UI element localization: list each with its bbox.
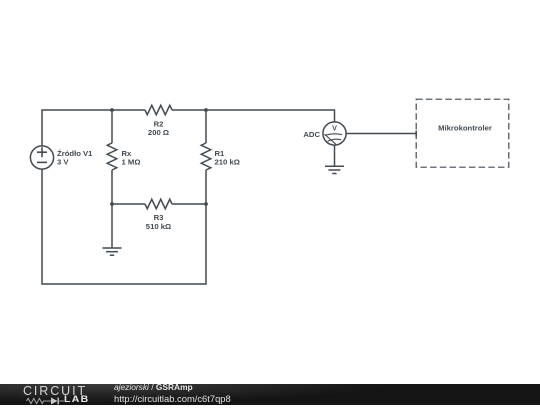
svg-text:Mikrokontroler: Mikrokontroler xyxy=(438,124,492,133)
svg-text:V: V xyxy=(332,124,337,133)
resistor Rx xyxy=(107,143,117,170)
wire V1 bottom to bottom rail xyxy=(42,170,206,285)
wire Rx top lead xyxy=(111,110,113,143)
svg-text:200 Ω: 200 Ω xyxy=(148,128,169,137)
logo resistor squiggle xyxy=(27,398,52,403)
terminal tick at Mikrokontroler xyxy=(415,131,417,137)
wire R1 bottom lead to R3 node xyxy=(205,170,207,204)
wire top rail Rx node to R2 left lead xyxy=(112,109,145,111)
junction node at R1 bottom / R3 right xyxy=(204,202,208,206)
wire R3 left lead xyxy=(112,203,145,205)
wire R1 top lead xyxy=(205,110,207,143)
resistor R1 xyxy=(201,143,211,170)
V1 plus sign xyxy=(37,147,47,157)
voltmeter ADC circle xyxy=(323,122,346,145)
voltmeter needle xyxy=(324,134,336,144)
wire ADC to Mikrokontroler xyxy=(347,133,417,135)
resistor R3 xyxy=(145,199,172,209)
svg-text:510 kΩ: 510 kΩ xyxy=(146,222,171,231)
wire Rx bottom lead to R3 node xyxy=(111,170,113,204)
wire R2 right lead to R1 node xyxy=(172,109,206,111)
resistor R2 xyxy=(145,105,172,115)
voltmeter scale arc lower xyxy=(328,139,342,141)
junction node at Rx top xyxy=(110,108,114,112)
svg-text:ADC: ADC xyxy=(303,130,320,139)
wire top rail left: V1 top to Rx node xyxy=(42,110,112,146)
wire ground stub below ADC xyxy=(334,146,336,167)
V1 minus sign xyxy=(37,161,47,163)
svg-text:3 V: 3 V xyxy=(57,157,69,166)
Mikrokontroler dashed box xyxy=(416,99,509,167)
junction node at Rx bottom / R3 left xyxy=(110,202,114,206)
footer bar xyxy=(0,384,540,405)
svg-text:R3: R3 xyxy=(154,213,164,222)
wire R3 right lead xyxy=(172,203,206,205)
ground symbol ADC xyxy=(325,166,344,173)
CircuitLab logo xyxy=(21,383,23,385)
wire R1 node to ADC corner xyxy=(206,110,335,122)
junction node at R1 top xyxy=(204,108,208,112)
ground symbol left xyxy=(103,248,122,255)
voltmeter scale arc upper xyxy=(325,134,342,136)
wire ground stub below Rx node xyxy=(111,204,113,248)
logo diode xyxy=(51,397,58,404)
svg-text:R2: R2 xyxy=(154,119,164,128)
svg-text:1 MΩ: 1 MΩ xyxy=(122,158,141,167)
footer text xyxy=(114,382,193,392)
voltage source V1 circle xyxy=(30,146,53,169)
svg-text:210 kΩ: 210 kΩ xyxy=(215,158,240,167)
